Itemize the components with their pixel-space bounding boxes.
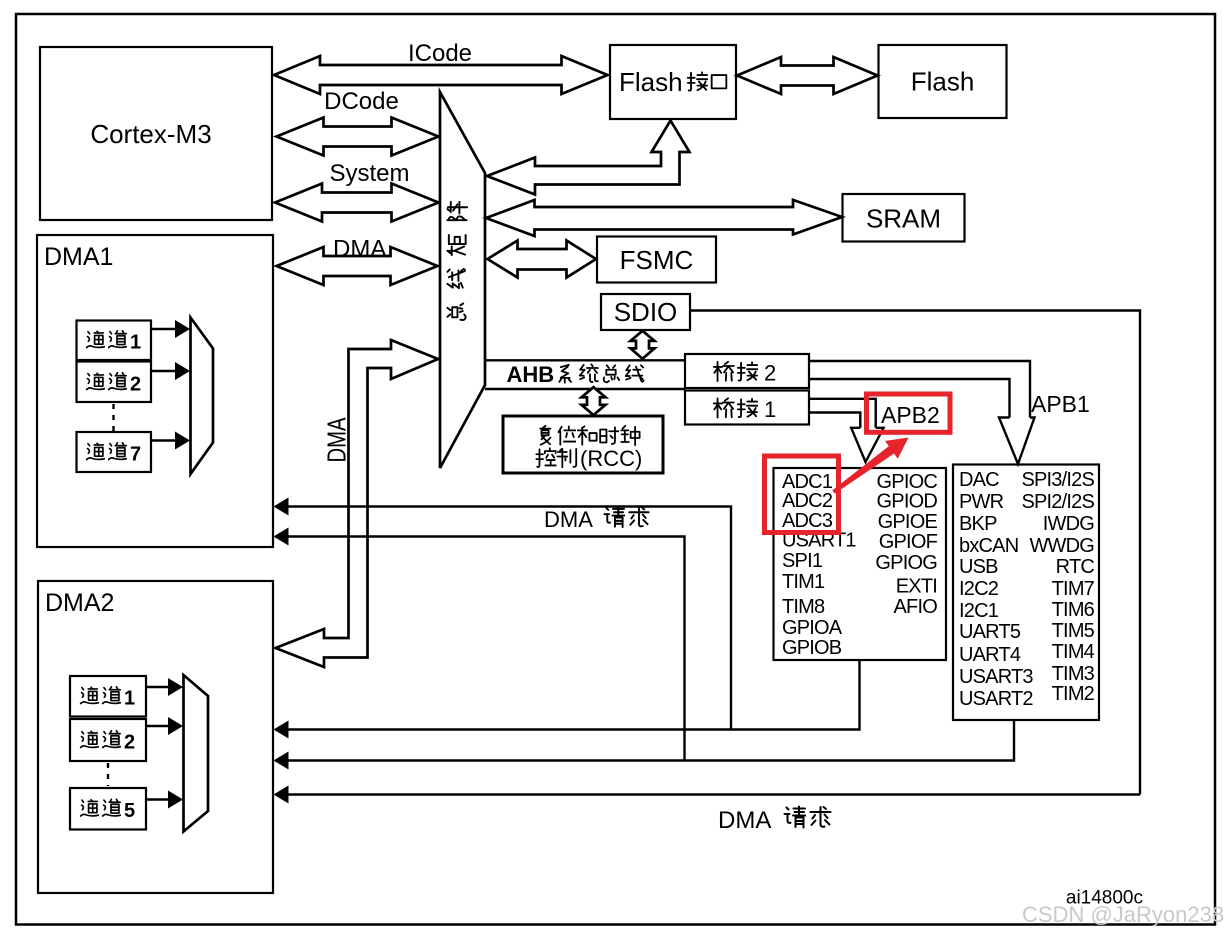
svg-text:WWDG: WWDG [1029, 535, 1094, 557]
svg-text:ADC2: ADC2 [782, 490, 833, 512]
thick DMA path bus-matrix to DMA2 [276, 340, 439, 667]
svg-text:AHB: AHB [507, 362, 555, 387]
box DMA2 [38, 581, 273, 893]
arrow APB1 down [999, 418, 1035, 465]
box SRAM [843, 194, 965, 242]
box FSMC [597, 237, 716, 283]
svg-text:TIM3: TIM3 [1052, 663, 1095, 685]
mux DMA2 [184, 675, 209, 832]
svg-text:CSDN @JaRyon238: CSDN @JaRyon238 [1022, 902, 1224, 927]
svg-text:DMA: DMA [544, 507, 593, 532]
box channel2 DMA2 [70, 719, 146, 761]
svg-text:Cortex-M3: Cortex-M3 [90, 119, 211, 149]
svg-text:SPI2/I2S: SPI2/I2S [1021, 491, 1094, 513]
svg-text:2: 2 [130, 374, 141, 396]
red highlight box APB2 [867, 394, 951, 432]
wire ch2 to mux [151, 370, 176, 372]
wire SDIO to right rail [690, 311, 1140, 795]
box channel1 DMA2 [70, 676, 146, 717]
arrow bus matrix to Flash interface (double-ended path) [487, 121, 690, 195]
svg-text:EXTI: EXTI [896, 576, 937, 598]
svg-text:USART2: USART2 [959, 688, 1033, 710]
svg-text:SRAM: SRAM [866, 204, 941, 234]
svg-text:bxCAN: bxCAN [959, 535, 1018, 557]
box channel1 DMA1 [77, 321, 152, 361]
svg-text:APB1: APB1 [1031, 391, 1090, 417]
wire DMA request line C (SDIO rail to DMA2) [277, 793, 1140, 795]
svg-text:TIM8: TIM8 [782, 596, 825, 618]
svg-text:DMA2: DMA2 [45, 589, 114, 617]
svg-text:System: System [329, 160, 409, 187]
svg-text:GPIOF: GPIOF [879, 531, 938, 553]
svg-text:TIM7: TIM7 [1052, 578, 1095, 600]
arrow APB2 down [851, 428, 883, 462]
svg-text:SPI3/I2S: SPI3/I2S [1021, 469, 1094, 491]
wire ch7 to mux [151, 439, 176, 441]
mux DMA1 [191, 318, 214, 475]
box channel7 DMA1 [77, 432, 152, 472]
wires bridge1 to APB2 arrow [809, 399, 876, 428]
box DMA1 [37, 235, 273, 547]
svg-text:TIM1: TIM1 [782, 571, 825, 593]
bus matrix label (rotated CJK) [447, 201, 467, 220]
small updown arrow SDIO-AHB [631, 331, 655, 359]
box bridge2 [685, 354, 809, 388]
arrow DMA (Cortex bus) [277, 247, 438, 285]
svg-text:I2C1: I2C1 [959, 600, 999, 622]
svg-text:TIM5: TIM5 [1052, 620, 1095, 642]
svg-text:DMA: DMA [333, 236, 386, 263]
dashed wire DMA1 channels [112, 404, 114, 431]
box SDIO [601, 294, 690, 330]
wire ch5 to mux DMA2 [146, 798, 169, 800]
AHB bus lines [485, 359, 685, 361]
arrow ICode [274, 56, 608, 94]
svg-text:GPIOD: GPIOD [877, 491, 938, 513]
arrow bus matrix to SRAM [486, 200, 842, 236]
box bridge1 [685, 391, 809, 425]
box channel2 DMA1 [77, 362, 152, 403]
svg-text:TIM2: TIM2 [1052, 683, 1095, 705]
box APB2 peripherals [774, 468, 947, 660]
wire DMA request line B (APB1 periph to DMA1/DMA2) [277, 720, 1014, 761]
svg-text:APB2: APB2 [881, 402, 940, 428]
svg-text:7: 7 [130, 444, 141, 466]
svg-text:SDIO: SDIO [614, 297, 678, 327]
small updown arrow AHB-RCC [582, 387, 606, 415]
svg-text:USART3: USART3 [959, 666, 1033, 688]
svg-text:GPIOA: GPIOA [782, 617, 843, 639]
svg-text:IWDG: IWDG [1043, 513, 1094, 535]
box APB1 peripherals [953, 465, 1099, 721]
svg-text:2: 2 [764, 361, 776, 386]
svg-text:SPI1: SPI1 [782, 550, 823, 572]
svg-text:Flash: Flash [619, 67, 683, 97]
wire ch1 to mux DMA2 [146, 686, 169, 688]
svg-text:(RCC): (RCC) [580, 446, 642, 471]
box RCC [503, 416, 663, 473]
svg-text:DMA: DMA [322, 417, 352, 463]
red highlight box ADC [765, 456, 839, 533]
red annotation arrow [832, 438, 908, 494]
box Flash [879, 45, 1007, 118]
svg-text:BKP: BKP [959, 513, 997, 535]
wires bridge2 to APB1 arrow [809, 361, 1030, 418]
wire DMA request line A (APB2 periph to DMA1/DMA2) [277, 660, 860, 730]
box channel5 DMA2 [70, 788, 146, 830]
arrow Flash interface to Flash [737, 57, 878, 94]
arrow DCode [277, 118, 439, 156]
svg-text:AFIO: AFIO [894, 596, 938, 618]
svg-text:TIM6: TIM6 [1052, 599, 1095, 621]
svg-text:GPIOG: GPIOG [875, 552, 937, 574]
wire ch1 to mux [151, 328, 176, 330]
dashed wire DMA2 channels [107, 763, 109, 786]
svg-text:GPIOE: GPIOE [878, 511, 938, 533]
bus matrix trapezoid [440, 92, 485, 468]
svg-text:ICode: ICode [408, 40, 472, 67]
svg-text:USB: USB [959, 556, 998, 578]
svg-text:UART5: UART5 [959, 621, 1021, 643]
svg-text:I2C2: I2C2 [959, 578, 999, 600]
svg-text:GPIOB: GPIOB [782, 637, 842, 659]
svg-text:1: 1 [764, 397, 776, 422]
box Flash interface [610, 45, 736, 119]
svg-text:DCode: DCode [324, 88, 399, 115]
svg-text:1: 1 [130, 332, 141, 354]
svg-text:5: 5 [124, 800, 135, 822]
svg-text:2: 2 [124, 732, 135, 754]
svg-text:Flash: Flash [911, 67, 975, 97]
arrow bus matrix to FSMC [488, 241, 597, 278]
svg-text:1: 1 [124, 688, 135, 710]
svg-text:FSMC: FSMC [620, 245, 694, 275]
svg-text:RTC: RTC [1056, 556, 1095, 578]
svg-text:UART4: UART4 [959, 644, 1021, 666]
box Cortex-M3 [40, 47, 272, 220]
svg-text:PWR: PWR [959, 491, 1004, 513]
svg-text:DMA: DMA [718, 807, 771, 834]
arrow System [275, 184, 439, 222]
svg-text:TIM4: TIM4 [1052, 641, 1095, 663]
svg-text:DAC: DAC [959, 469, 999, 491]
wire ch2 to mux DMA2 [146, 725, 169, 727]
svg-text:DMA1: DMA1 [44, 243, 113, 271]
